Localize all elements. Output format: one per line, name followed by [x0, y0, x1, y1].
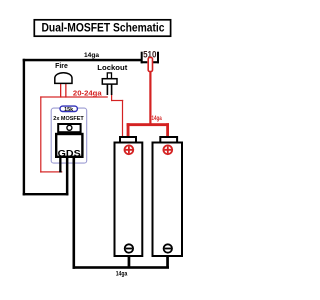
svg-text:Dual-MOSFET Schematic: Dual-MOSFET Schematic [42, 23, 166, 35]
svg-text:2x MOSFET: 2x MOSFET [53, 116, 84, 122]
svg-text:14ga: 14ga [84, 52, 100, 59]
svg-text:15k: 15k [64, 107, 73, 113]
svg-text:14ga: 14ga [152, 116, 163, 122]
svg-text:20-24ga: 20-24ga [73, 90, 102, 97]
svg-text:Fire: Fire [55, 61, 68, 70]
svg-text:GDS: GDS [58, 148, 81, 158]
svg-text:14ga: 14ga [116, 271, 128, 278]
svg-text:Lockout: Lockout [97, 63, 127, 72]
